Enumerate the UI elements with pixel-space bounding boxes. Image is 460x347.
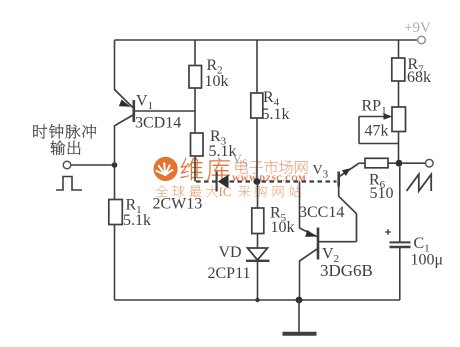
svg-text:3CC14: 3CC14 (299, 204, 344, 221)
wire V2 collector to dashed line (299, 182, 301, 229)
svg-text:3CD14: 3CD14 (135, 115, 181, 132)
wire R4 top (256, 40, 258, 93)
potentiometer RP1 (359, 107, 406, 144)
svg-text:10k: 10k (271, 219, 295, 236)
label R4 5.1k (262, 89, 290, 123)
wire R7 to RP1 (398, 81, 400, 107)
node input junction (112, 162, 118, 168)
wire top supply rail (115, 39, 418, 41)
svg-text:2CP11: 2CP11 (208, 265, 251, 282)
svg-text:10k: 10k (205, 73, 229, 90)
output terminal circle (426, 159, 434, 167)
wire to output terminal (403, 162, 426, 164)
label 输出 (50, 140, 80, 155)
resistor R7 (392, 58, 405, 81)
label R5 10k (270, 205, 295, 237)
wire left vertical (V1 emitter feed) (114, 40, 116, 90)
svg-text:3DG6B: 3DG6B (320, 261, 373, 280)
wire R5 bottom (257, 234, 259, 249)
wire R6 right (388, 162, 399, 164)
clock pulse symbol (56, 177, 82, 191)
resistor R4 (251, 93, 263, 118)
input terminal circle (63, 161, 71, 169)
diode VD 2CP11 (246, 248, 270, 261)
label 时钟脉冲 (33, 124, 96, 138)
svg-text:100μ: 100μ (411, 252, 444, 269)
resistor R1 (109, 200, 123, 225)
wire input to collector line (71, 164, 115, 166)
watermark brand text 维库 (181, 158, 230, 180)
zener diode VS 2CW13 (217, 172, 229, 192)
label R2 10k (205, 57, 229, 90)
label R3 5.1k (209, 128, 237, 160)
wire VD bottom (257, 261, 259, 300)
node output junction (396, 160, 403, 167)
watermark text 电子市场网 (236, 160, 308, 174)
transistor V2 3DG6B (300, 228, 319, 262)
svg-text:+9V: +9V (404, 20, 431, 36)
wire R7 top (398, 40, 400, 58)
resistor R6 (365, 158, 388, 168)
wire dashed coupling line right (230, 180, 337, 182)
ground (283, 300, 317, 334)
svg-text:68k: 68k (407, 69, 431, 86)
wire R3 bottom to zener (194, 156, 196, 182)
wire V1 base to R2/R3 node (134, 110, 195, 112)
capacitor C1 (385, 167, 410, 300)
svg-text:IC: IC (219, 184, 232, 199)
transistor V3 3CC14 (319, 164, 359, 242)
wire bottom rail (115, 299, 401, 301)
watermark slogan 全球最大IC采购网站 (156, 184, 301, 199)
transistor V1 3CD14 (115, 90, 134, 126)
resistor R2 (189, 66, 202, 89)
label R1 5.1k (123, 197, 151, 230)
label R6 510 (369, 172, 394, 203)
wire R2 top (194, 40, 196, 66)
sawtooth waveform symbol (407, 174, 432, 191)
svg-text:47k: 47k (365, 123, 389, 140)
wire R1 bottom (114, 225, 116, 301)
wire R3 top (194, 111, 196, 133)
wire RP1 bottom (398, 132, 400, 164)
power terminal +9V (404, 20, 431, 44)
svg-text:5.1k: 5.1k (123, 212, 151, 229)
wire V2 emitter down (299, 261, 301, 301)
svg-text:5.1k: 5.1k (262, 106, 290, 123)
resistor R3 (191, 133, 204, 156)
wire R5 top (257, 182, 259, 209)
svg-text:VD: VD (219, 244, 242, 261)
node zener/R4/R5 junction (254, 178, 261, 185)
wire V1 collector down (114, 125, 116, 200)
label R7 68k (407, 56, 431, 86)
wire R2 bottom (194, 88, 196, 111)
wire dashed coupling line left (196, 180, 216, 182)
node ground junction (296, 297, 303, 304)
svg-text:510: 510 (370, 185, 394, 202)
wire R4 bottom (256, 118, 258, 182)
watermark logo disc (154, 157, 178, 181)
resistor R5 (252, 208, 264, 234)
wire V3 emitter to R6 (359, 162, 366, 164)
svg-text:2CW13: 2CW13 (153, 196, 203, 213)
